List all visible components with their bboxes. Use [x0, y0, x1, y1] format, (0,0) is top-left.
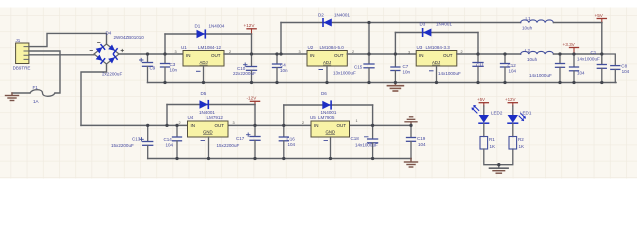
wire to LED1	[512, 106, 514, 115]
diode D1	[195, 24, 225, 39]
capacitor C3	[161, 54, 178, 83]
bridge rectifier D4	[90, 31, 144, 64]
wire stage3 loop top	[395, 32, 478, 34]
wire L2 right rail	[554, 53, 603, 55]
svg-text:3: 3	[299, 50, 301, 54]
capacitor C4	[273, 54, 289, 83]
connector J1	[13, 38, 31, 71]
wire LED2 to R1	[483, 124, 485, 137]
svg-text:C18: C18	[351, 136, 360, 141]
capacitor 104 at 574	[570, 54, 586, 83]
wire J1 pin3 to bridge left	[29, 54, 94, 56]
svg-text:LED1: LED1	[520, 111, 532, 116]
wire stage1 loop left vertical	[164, 34, 166, 54]
svg-text:15x2200uF: 15x2200uF	[217, 143, 240, 148]
svg-text:2W04ZB01010: 2W04ZB01010	[114, 35, 145, 40]
lower raw rail	[81, 124, 188, 126]
capacitor C1	[577, 23, 606, 83]
capacitor C11	[438, 54, 484, 83]
regulator U1 LM1084-12	[175, 45, 232, 66]
svg-text:C11: C11	[476, 63, 484, 68]
svg-text:13x1000uF: 13x1000uF	[333, 70, 356, 75]
wire stage2 loop left vertical	[280, 23, 282, 55]
power port +12V	[244, 23, 257, 34]
capacitor C18	[351, 125, 378, 158]
fuse F1	[30, 85, 55, 104]
svg-text:L2: L2	[525, 48, 531, 53]
wire LED1 to R2	[512, 124, 514, 137]
svg-text:D2: D2	[318, 12, 324, 17]
svg-text:D4: D4	[106, 31, 112, 36]
wire fuse to earth	[12, 92, 30, 94]
svg-text:-12V: -12V	[247, 96, 258, 101]
svg-text:D3: D3	[420, 21, 426, 26]
wire +5V run to L1	[369, 22, 521, 24]
wire stage5 loop top	[284, 104, 373, 106]
svg-text:C7: C7	[403, 64, 409, 69]
capacitor C9	[102, 54, 156, 83]
wire stage4 loop top	[167, 104, 255, 106]
bottom ground bus	[148, 158, 411, 160]
wire U4 GND to bottom bus	[208, 137, 210, 159]
svg-text:GND: GND	[203, 129, 213, 134]
wire J1 pin1 to bridge top	[29, 33, 107, 46]
wire stage3 loop left vertical	[394, 33, 396, 55]
svg-text:1N4001: 1N4001	[334, 12, 350, 17]
diode D5	[199, 91, 215, 115]
regulator U2 LM1084-5.0	[299, 45, 355, 66]
svg-text:ADJ: ADJ	[323, 60, 331, 65]
diode D2	[318, 12, 350, 26]
svg-text:OUT: OUT	[215, 123, 225, 128]
wire L1 to +5V node	[554, 22, 603, 24]
svg-text:OUT: OUT	[443, 53, 453, 58]
svg-text:3: 3	[233, 121, 235, 125]
ground bus top section	[148, 82, 617, 84]
sheet background	[0, 8, 637, 179]
svg-text:+5V: +5V	[477, 97, 485, 102]
svg-text:D5: D5	[201, 91, 207, 96]
svg-text:1: 1	[356, 119, 358, 123]
capacitor C12	[501, 54, 517, 83]
wire bridge right to U1 input rail	[119, 53, 183, 55]
capacitor C17	[217, 125, 261, 158]
svg-text:OUT: OUT	[334, 53, 344, 58]
svg-text:OUT: OUT	[211, 53, 221, 58]
resistor R2	[509, 137, 524, 150]
svg-text:104: 104	[622, 69, 630, 74]
inductor L2	[521, 48, 554, 62]
svg-text:1K: 1K	[519, 144, 525, 149]
svg-text:2: 2	[302, 121, 304, 125]
svg-text:10n: 10n	[280, 68, 288, 73]
svg-text:+12V: +12V	[505, 97, 516, 102]
svg-text:C17: C17	[236, 136, 245, 141]
svg-text:104: 104	[509, 69, 517, 74]
svg-text:10n: 10n	[170, 68, 178, 73]
earth ground LEDs	[490, 168, 509, 173]
svg-text:2: 2	[179, 121, 181, 125]
svg-text:+5V: +5V	[595, 13, 604, 18]
svg-text:3: 3	[175, 50, 177, 54]
svg-text:IN: IN	[191, 123, 196, 128]
svg-text:1N4001: 1N4001	[436, 21, 452, 26]
diode D3	[420, 21, 453, 36]
wire J1 pin2 down to fuse	[29, 51, 60, 93]
wire stage4 loop left vertical	[166, 105, 168, 126]
svg-text:F1: F1	[33, 85, 39, 90]
svg-text:C8: C8	[621, 63, 627, 68]
diode D6	[321, 91, 337, 115]
svg-text:C16: C16	[287, 136, 296, 141]
wire to LED2	[483, 106, 485, 115]
svg-text:R1: R1	[489, 137, 495, 142]
capacitor at 3.3V node	[529, 54, 565, 83]
svg-text:LM7905: LM7905	[318, 115, 335, 120]
LED branch 1: power port	[477, 97, 488, 106]
svg-text:ADJ: ADJ	[432, 60, 440, 65]
wire stage5 loop left vertical	[283, 105, 285, 125]
svg-text:+3.3V: +3.3V	[563, 42, 576, 47]
svg-text:C3: C3	[170, 62, 176, 67]
earth ground on bus	[387, 83, 403, 92]
capacitor C13	[111, 125, 153, 158]
svg-text:D1: D1	[195, 24, 201, 29]
svg-text:14x1000uF: 14x1000uF	[529, 73, 552, 78]
capacitor C14	[164, 125, 182, 158]
svg-text:14x1000uF: 14x1000uF	[577, 56, 600, 61]
svg-text:10n: 10n	[403, 70, 411, 75]
svg-text:OUT: OUT	[337, 123, 347, 128]
svg-text:1A: 1A	[33, 99, 40, 104]
svg-text:1N4004: 1N4004	[209, 24, 225, 29]
svg-text:3: 3	[408, 51, 410, 55]
svg-text:104: 104	[418, 142, 426, 147]
svg-text:LM1084-5.0: LM1084-5.0	[320, 45, 345, 50]
regulator U3 LM1084-3.3	[408, 45, 463, 66]
wire U5 GND to bottom bus	[330, 137, 332, 159]
wire U2 ADJ to ground bus	[326, 66, 328, 83]
svg-text:C1: C1	[591, 50, 597, 55]
svg-text:DB9TRE: DB9TRE	[13, 66, 31, 71]
wire stage5 out node vertical	[372, 105, 374, 125]
svg-text:1K: 1K	[490, 144, 496, 149]
wire stage2 out node vertical	[368, 23, 370, 55]
svg-text:J1: J1	[16, 38, 21, 43]
svg-text:L1: L1	[526, 16, 532, 21]
svg-text:C19: C19	[417, 136, 426, 141]
svg-text:C15: C15	[354, 64, 363, 69]
svg-text:GND: GND	[326, 129, 336, 134]
wire U1 ADJ to ground bus	[203, 66, 205, 83]
wire stage3 out node vertical	[477, 33, 479, 55]
svg-text:14x1000uF: 14x1000uF	[438, 71, 461, 76]
svg-text:C12: C12	[508, 63, 517, 68]
svg-text:2x2200uF: 2x2200uF	[102, 72, 122, 77]
svg-text:LM7912: LM7912	[207, 115, 224, 120]
svg-text:R2: R2	[518, 137, 524, 142]
inductor L1	[521, 16, 554, 30]
power port -12V	[247, 96, 260, 105]
wire R1 to led-gnd	[484, 149, 513, 165]
inverted earth at -rail end	[405, 117, 417, 126]
earth ground (mains)	[6, 93, 19, 101]
svg-text:U4: U4	[188, 115, 194, 120]
svg-text:104: 104	[166, 142, 174, 147]
LED2	[472, 105, 503, 123]
capacitor C15	[354, 54, 374, 83]
wire stage4 out node vertical	[254, 105, 256, 126]
svg-text:C14: C14	[164, 137, 173, 142]
svg-text:IN: IN	[419, 53, 424, 58]
wire stage1 loop top	[165, 33, 252, 35]
svg-text:ADJ: ADJ	[200, 60, 208, 65]
svg-text:C4: C4	[280, 62, 286, 67]
wire bridge bottom to lower rail	[81, 64, 107, 125]
resistor R1	[480, 137, 495, 150]
svg-text:U3: U3	[417, 45, 423, 50]
svg-text:14x1000uF: 14x1000uF	[355, 143, 378, 148]
wire U3 ADJ to ground bus	[436, 66, 438, 83]
wire stage2 loop top	[281, 22, 369, 24]
earth ground at bottom bus	[405, 159, 418, 168]
svg-text:U2: U2	[308, 45, 314, 50]
LED1	[508, 111, 532, 124]
svg-text:IN: IN	[186, 53, 191, 58]
regulator U5 LM7905	[302, 115, 358, 137]
wire rail U3 out rightward	[457, 53, 521, 55]
svg-text:10uh: 10uh	[527, 57, 538, 62]
svg-text:LED2: LED2	[491, 111, 503, 116]
regulator U4 LM7912	[179, 115, 235, 137]
power port +5V	[595, 13, 607, 23]
capacitor C16	[279, 125, 295, 158]
capacitor C8	[602, 54, 630, 83]
svg-text:C9: C9	[150, 65, 156, 70]
LED ground stem	[498, 165, 500, 168]
svg-text:U1: U1	[181, 45, 187, 50]
LED branch 2: power port	[505, 97, 517, 106]
svg-text:C10: C10	[237, 66, 246, 71]
power port +3.3V	[563, 42, 579, 54]
wire rail U1 out to U2 in	[224, 53, 307, 55]
capacitor C19	[407, 125, 427, 158]
wire rail U2 out to U3 in	[347, 53, 416, 55]
svg-text:22x2200uF: 22x2200uF	[233, 71, 256, 76]
svg-text:LM1084-3.3: LM1084-3.3	[426, 45, 451, 50]
svg-text:104: 104	[288, 142, 296, 147]
svg-text:IN: IN	[314, 123, 319, 128]
svg-text:IN: IN	[310, 53, 315, 58]
wire stage1 output node vertical	[251, 34, 253, 54]
capacitor C10	[233, 54, 257, 83]
svg-text:10uh: 10uh	[522, 25, 533, 30]
svg-text:D6: D6	[321, 91, 327, 96]
svg-text:15x2200uF: 15x2200uF	[111, 143, 134, 148]
svg-text:LM1084-12: LM1084-12	[198, 45, 221, 50]
polarity marks	[140, 63, 368, 141]
svg-text:+12V: +12V	[244, 23, 256, 28]
svg-text:U5: U5	[310, 115, 316, 120]
svg-text:104: 104	[577, 70, 585, 75]
capacitor C7	[391, 54, 411, 83]
